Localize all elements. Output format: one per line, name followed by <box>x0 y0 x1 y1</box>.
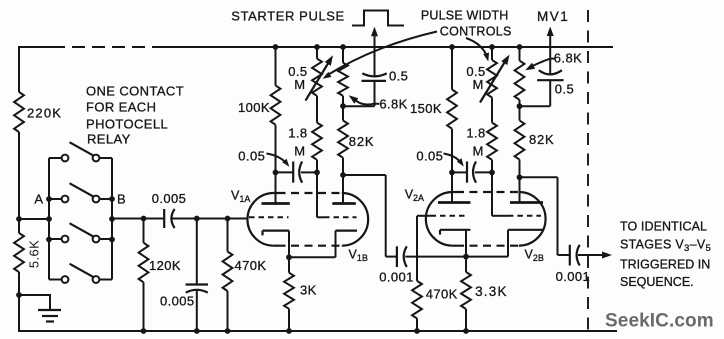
resistor 470K stage2 <box>412 281 422 319</box>
svg-text:SEQUENCE.: SEQUENCE. <box>620 275 694 289</box>
svg-text:0.001: 0.001 <box>556 269 591 284</box>
wire starter pulse <box>374 35 376 77</box>
svg-text:220K: 220K <box>27 106 62 121</box>
resistor 3.3K <box>465 257 467 272</box>
triode V2B grid <box>491 172 493 215</box>
resistor 220K <box>14 92 24 132</box>
svg-text:STARTER PULSE: STARTER PULSE <box>231 9 345 24</box>
node 470K stage2 bottom <box>414 328 420 334</box>
resistor 1.8M stage2 <box>491 98 493 123</box>
svg-text:TRIGGERED IN: TRIGGERED IN <box>620 258 710 272</box>
node B <box>109 196 115 202</box>
V2A grid line <box>416 216 418 281</box>
svg-text:V2A: V2A <box>405 188 424 204</box>
svg-text:470K: 470K <box>235 258 267 273</box>
top supply rail <box>19 46 52 48</box>
svg-text:TO IDENTICAL: TO IDENTICAL <box>620 220 707 234</box>
svg-text:0.005: 0.005 <box>160 294 195 309</box>
resistor 3K <box>288 257 290 272</box>
svg-text:MV1: MV1 <box>537 9 569 24</box>
triode V2B cathode <box>508 229 543 231</box>
node 6.8K rail stage2 <box>517 44 523 50</box>
node 3K top <box>286 254 292 260</box>
switch right bus <box>111 158 113 280</box>
node V1A plate/cap <box>273 170 279 176</box>
svg-text:PHOTOCELL: PHOTOCELL <box>86 117 168 132</box>
resistor 1.8M stage1 <box>316 96 318 123</box>
pot2 wiper arrow <box>480 60 506 103</box>
svg-text:V1A: V1A <box>231 189 250 205</box>
pointer arrow to pot2 <box>466 38 488 58</box>
node rail-switch junction <box>16 216 22 222</box>
svg-text:0.5: 0.5 <box>555 82 574 97</box>
wire rail to ground symbol <box>19 294 50 296</box>
tube V2 envelope <box>426 192 453 246</box>
resistor 120K <box>143 219 145 243</box>
pointer arrow 0.05 stage2 <box>444 154 462 164</box>
node 120K top <box>141 216 147 222</box>
node pot1 rail <box>314 44 320 50</box>
capacitor 0.05 stage1 <box>276 171 294 173</box>
svg-text:STAGES V3–V5: STAGES V3–V5 <box>620 238 711 255</box>
svg-text:150K: 150K <box>410 101 442 116</box>
capacitor 0.5 stage2 <box>539 70 562 74</box>
wire V1B plate to coupling cap <box>343 174 386 176</box>
svg-text:3K: 3K <box>300 283 317 298</box>
resistor 6.8K stage1 <box>342 47 344 63</box>
svg-text:RELAY: RELAY <box>87 132 131 147</box>
wire cap to grid V1A <box>173 218 248 220</box>
triode V1A grid <box>249 216 289 218</box>
pointer arrow to pot1 <box>326 32 437 77</box>
wire coupling cap to cathode node <box>405 256 466 258</box>
wire cathodes V1 <box>289 256 336 258</box>
node V2A plate/cap <box>449 170 455 176</box>
svg-text:M: M <box>294 77 305 92</box>
wire rail to left bus <box>19 218 49 220</box>
svg-text:V2B: V2B <box>525 248 544 264</box>
ground <box>38 309 61 311</box>
potentiometer 0.5M stage2 <box>491 47 493 60</box>
capacitor 0.005 shunt <box>196 219 198 285</box>
triode V1A cathode <box>263 230 290 232</box>
capacitor 0.5 stage1 <box>362 73 386 76</box>
node 470K top <box>225 216 231 222</box>
node shunt cap bottom <box>194 328 200 334</box>
resistor 6.8K stage2 <box>519 47 521 61</box>
svg-text:M: M <box>294 144 305 159</box>
resistor 470K stage1 <box>227 219 229 252</box>
svg-text:B: B <box>117 192 126 207</box>
potentiometer 0.5M stage1 <box>316 47 318 59</box>
svg-text:470K: 470K <box>426 287 458 302</box>
svg-text:M: M <box>472 77 483 92</box>
pointer arrow 0.05 stage1 <box>267 154 288 165</box>
switch S4 <box>49 279 62 281</box>
svg-text:0.05: 0.05 <box>416 149 443 164</box>
switch S2 <box>49 198 62 200</box>
svg-text:6.8K: 6.8K <box>554 51 582 66</box>
output wire with arrow <box>578 254 602 256</box>
capacitor 0.05 stage2 <box>452 171 467 173</box>
svg-text:82K: 82K <box>349 134 375 149</box>
node V1B plate junction <box>340 172 346 178</box>
svg-text:82K: 82K <box>529 132 555 147</box>
node 150K rail <box>449 44 455 50</box>
node 6.8K/82K junction stage2 <box>517 103 523 109</box>
left rail wire <box>18 46 20 92</box>
svg-text:0.005: 0.005 <box>152 191 187 206</box>
triode V2A grid <box>431 215 469 217</box>
svg-text:100K: 100K <box>238 100 270 115</box>
resistor 5.6K <box>14 233 24 272</box>
triode V1A plate <box>275 172 277 203</box>
triode V1B cathode <box>336 230 358 232</box>
node A <box>46 196 52 202</box>
switch bus junction dots <box>46 216 52 222</box>
svg-text:FOR EACH: FOR EACH <box>86 100 156 115</box>
resistor 82K stage1 <box>342 106 344 120</box>
switch left bus <box>48 158 50 280</box>
wire V2B plate to output cap <box>520 176 558 178</box>
svg-text:5.6K: 5.6K <box>27 240 42 268</box>
svg-text:1.8: 1.8 <box>466 126 485 141</box>
svg-text:M: M <box>472 144 483 159</box>
boundary dashed line <box>587 10 589 331</box>
node 470K bottom <box>225 328 231 334</box>
node 6.8K rail stage1 <box>340 44 346 50</box>
svg-text:0.001: 0.001 <box>379 270 414 285</box>
node pot2 rail <box>489 44 495 50</box>
node shunt cap top <box>194 216 200 222</box>
resistor 150K <box>451 47 453 90</box>
starter pulse waveform symbol <box>352 11 404 26</box>
triode V2A plate <box>451 172 453 202</box>
triode V2A cathode <box>440 229 470 231</box>
svg-text:3.3K: 3.3K <box>475 284 508 299</box>
triode V1B grid <box>316 172 318 217</box>
capacitor 0.005 series <box>163 209 165 228</box>
svg-text:V1B: V1B <box>349 248 368 264</box>
svg-text:CONTROLS: CONTROLS <box>440 25 512 39</box>
svg-text:120K: 120K <box>149 258 181 273</box>
pot1 wiper arrow <box>306 61 330 101</box>
svg-text:A: A <box>34 192 43 207</box>
node V2B plate junction <box>517 174 523 180</box>
wire B to coupling cap <box>112 218 164 220</box>
node 3.3K bottom <box>463 328 469 334</box>
svg-text:0.05: 0.05 <box>238 149 265 164</box>
svg-text:SeekIC.com: SeekIC.com <box>605 311 714 332</box>
capacitor 0.001 output <box>569 245 571 266</box>
node rail-ground junction <box>16 292 22 298</box>
triode V2B plate <box>519 177 521 202</box>
node 3.3K top <box>463 254 469 260</box>
svg-text:1.8: 1.8 <box>288 126 307 141</box>
triode V1B plate <box>342 175 344 204</box>
resistor 82K stage2 <box>519 106 521 120</box>
svg-text:0.5: 0.5 <box>389 69 408 84</box>
wire MV1 <box>549 34 551 75</box>
switch S3 <box>49 238 62 240</box>
node 100K rail <box>273 44 279 50</box>
svg-text:PULSE WIDTH: PULSE WIDTH <box>421 9 509 23</box>
bottom ground rail <box>18 330 617 332</box>
svg-text:6.8K: 6.8K <box>379 97 407 112</box>
switch S1 <box>49 157 62 159</box>
node 120K bottom <box>141 328 147 334</box>
resistor 100K <box>275 47 277 85</box>
tube V1 envelope <box>247 193 273 246</box>
node 1.8M stage2 bottom <box>489 170 495 176</box>
node 1.8M bottom <box>314 170 320 176</box>
capacitor 0.001 interstage <box>396 246 398 267</box>
node 6.8K/82K junction stage1 <box>340 103 346 109</box>
svg-text:ONE CONTACT: ONE CONTACT <box>86 84 184 99</box>
node 3K bottom <box>286 328 292 334</box>
wire cathodes V2 <box>466 256 508 258</box>
